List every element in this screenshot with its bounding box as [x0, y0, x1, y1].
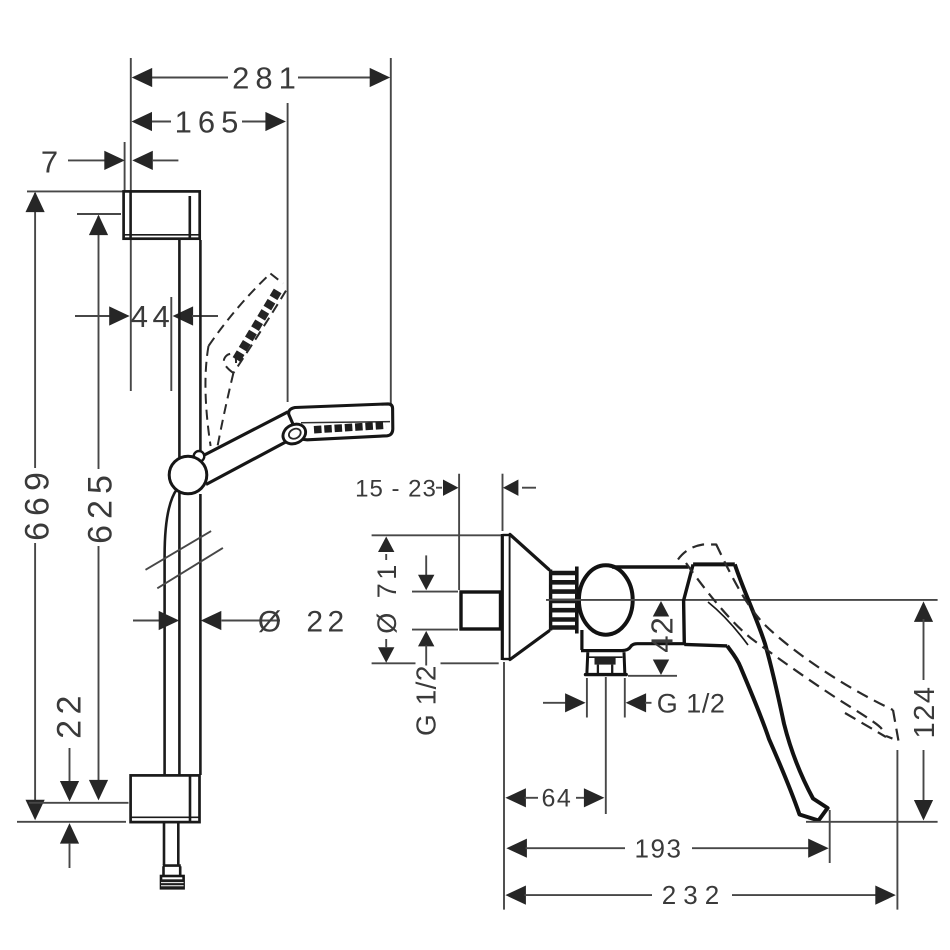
- svg-text:G 1/2: G 1/2: [410, 665, 441, 736]
- hand shower handle: [201, 412, 296, 485]
- svg-text:22: 22: [306, 606, 348, 639]
- slider pivot: [169, 456, 207, 494]
- extension line bracket-left x124.6: [124, 142, 126, 191]
- ribbed adjuster: [549, 567, 577, 634]
- svg-text:G 1/2: G 1/2: [657, 688, 726, 718]
- outlet block: [586, 652, 627, 674]
- dim 281: [132, 60, 391, 95]
- extension line left vertical x131: [130, 58, 132, 391]
- handle base: [684, 564, 735, 646]
- rail bar: [179, 240, 200, 775]
- body top edge: [612, 565, 688, 569]
- dashed spray face (alt position): [237, 290, 279, 360]
- hose nut: [161, 876, 184, 889]
- dim 42: [628, 601, 679, 676]
- extension line lever tip x829.7: [829, 810, 831, 863]
- break marks: [146, 531, 223, 588]
- svg-text:22: 22: [50, 690, 88, 739]
- dim 22: [50, 690, 88, 868]
- escutcheon cone: [502, 534, 549, 660]
- svg-text:625: 625: [81, 469, 119, 544]
- svg-text:42: 42: [644, 616, 679, 652]
- bottom bracket: [131, 775, 200, 822]
- dim 7: [41, 144, 179, 179]
- top wall bracket: [124, 191, 200, 238]
- svg-text:165: 165: [175, 104, 245, 139]
- dim diameter-22: [133, 606, 349, 639]
- outlet extension lines: [587, 677, 625, 814]
- extension line right vertical x391: [390, 58, 392, 404]
- extension tick y214: [77, 213, 121, 215]
- svg-text:281: 281: [232, 60, 302, 95]
- hand shower head: [289, 404, 393, 440]
- svg-text:64: 64: [541, 785, 572, 813]
- dim 669: [18, 192, 56, 821]
- svg-text:193: 193: [635, 833, 683, 863]
- extension line top-bracket horizontal y191: [27, 190, 124, 192]
- extension line mid vertical x288: [287, 103, 289, 402]
- dim G1/2 left: [410, 555, 458, 736]
- hose: [163, 489, 181, 876]
- dim G1/2 right: [543, 688, 725, 718]
- extension line dashed tip x897.4: [896, 750, 898, 910]
- body bottom: [581, 630, 685, 651]
- svg-text:15 - 23: 15 - 23: [355, 475, 437, 502]
- lever solid: [708, 564, 828, 820]
- dim 44: [75, 297, 218, 391]
- svg-text:7: 7: [41, 144, 58, 179]
- dim 64: [505, 785, 604, 813]
- centerline y600: [546, 599, 938, 601]
- dim 165: [132, 104, 286, 139]
- dim 625: [81, 215, 119, 801]
- svg-text:124: 124: [909, 686, 941, 739]
- dashed handle (alt position): [205, 274, 286, 452]
- dim 232: [505, 880, 895, 910]
- valve dome: [579, 565, 633, 634]
- dim 15-23: [355, 475, 536, 502]
- extension line wall x459: [458, 474, 460, 590]
- extension line bottom y821.8: [17, 821, 126, 823]
- svg-text:Ø: Ø: [258, 606, 281, 639]
- dim diameter-71: [372, 535, 501, 663]
- dim 124: [909, 601, 941, 820]
- svg-text:44: 44: [131, 299, 174, 334]
- extension line bottom y821.8: [806, 821, 938, 823]
- svg-text:232: 232: [662, 880, 726, 910]
- lever dashed (alt position): [678, 544, 899, 741]
- svg-text:669: 669: [18, 466, 56, 541]
- dim 193: [506, 833, 828, 863]
- swivel ring: [280, 420, 309, 447]
- extension line bottom y802.8: [29, 802, 129, 804]
- extension line face x502.5: [502, 474, 504, 531]
- inlet thread rect: [461, 592, 501, 629]
- extension line face-lower x504: [503, 662, 505, 910]
- svg-text:Ø 71: Ø 71: [372, 561, 402, 634]
- slider knob: [194, 451, 205, 462]
